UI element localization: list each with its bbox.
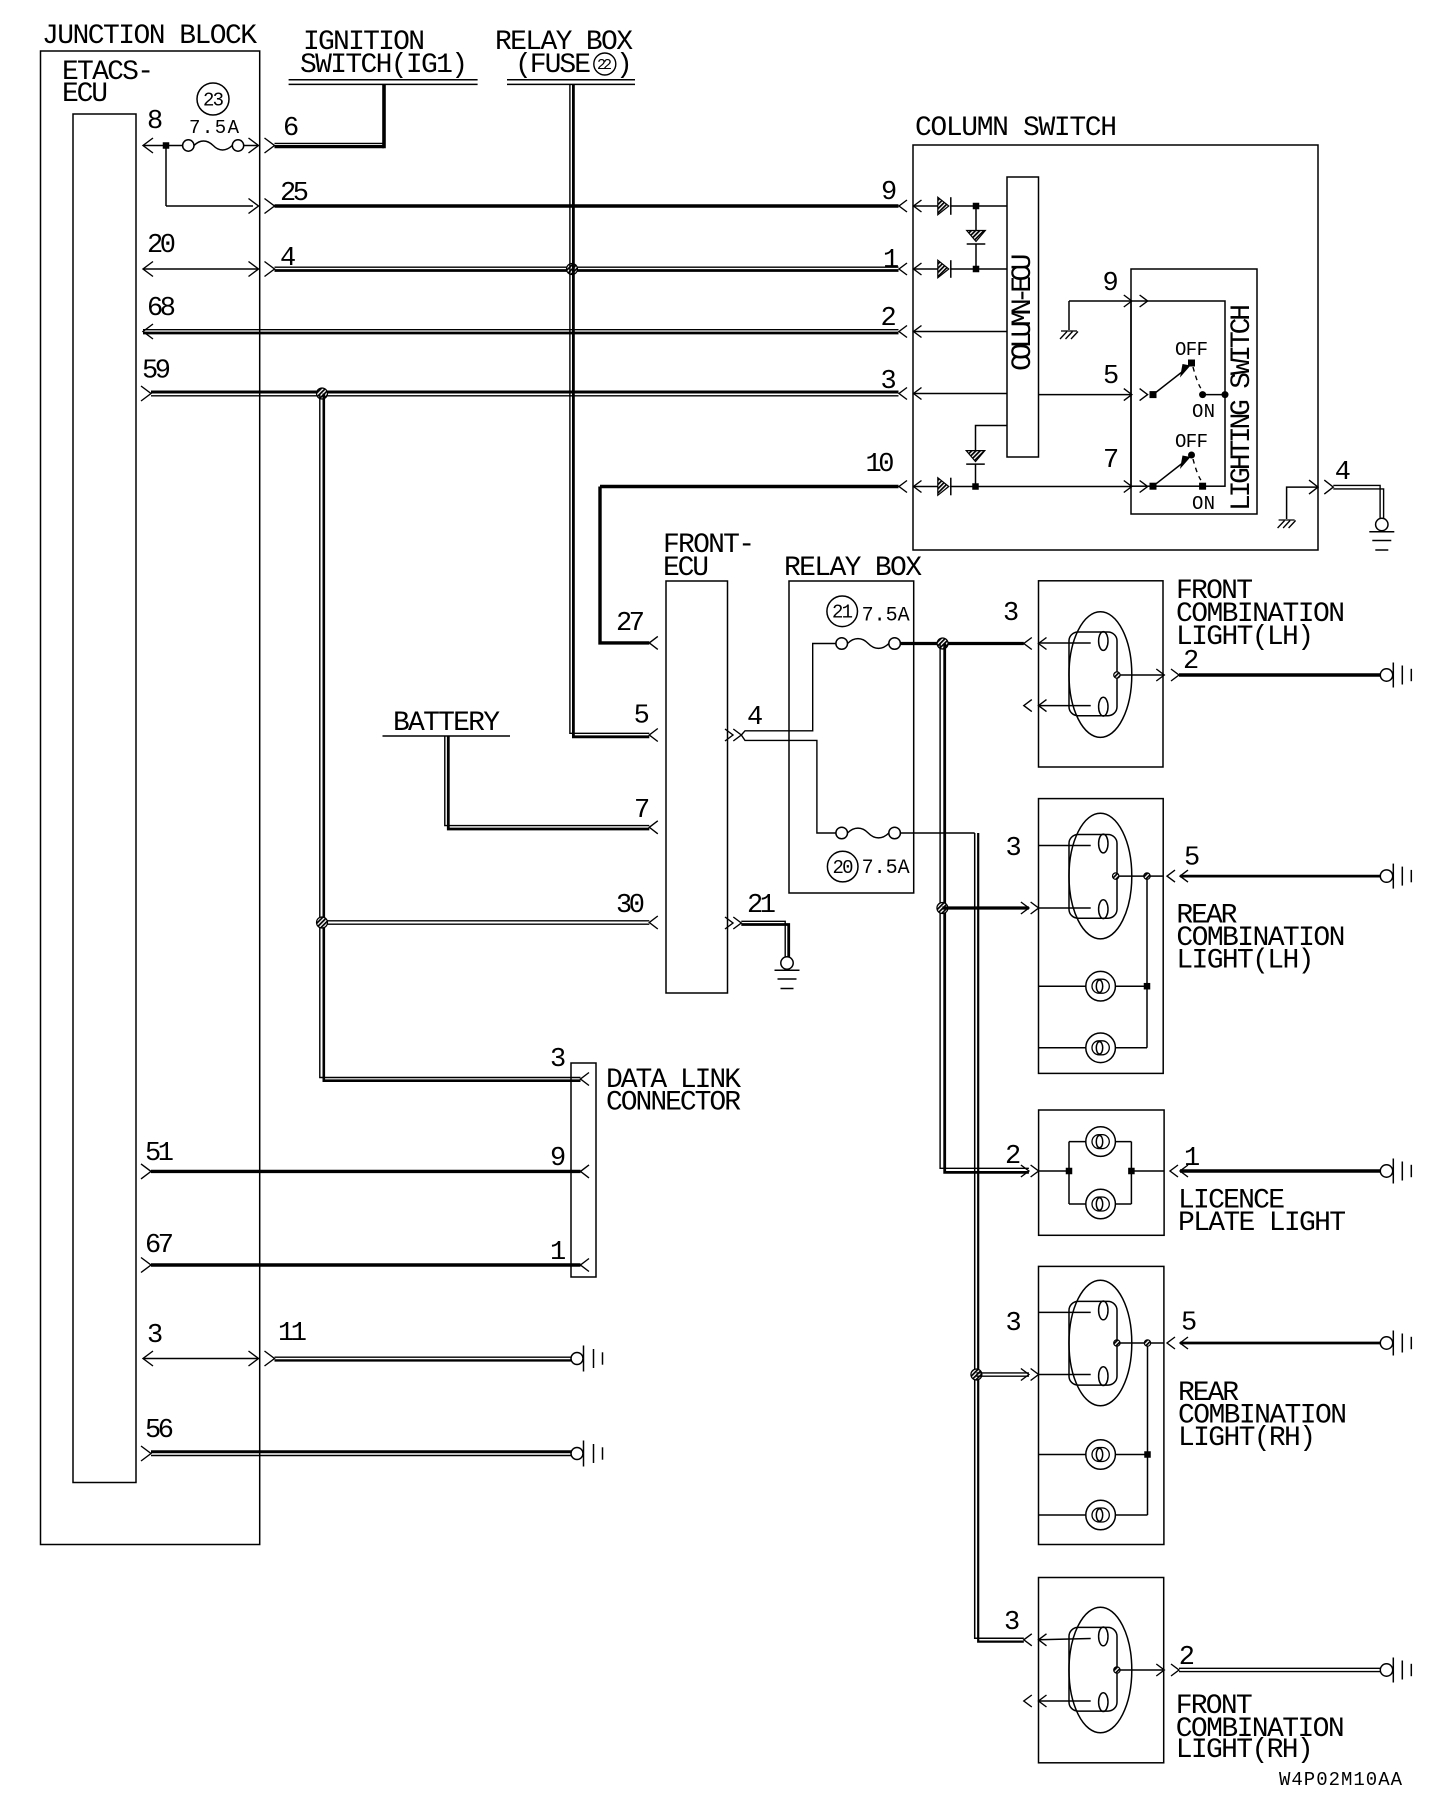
svg-text:4: 4 <box>280 244 296 274</box>
svg-text:3: 3 <box>147 1321 163 1351</box>
svg-text:3: 3 <box>550 1045 566 1075</box>
svg-text:7: 7 <box>1103 446 1119 476</box>
svg-text:LIGHT(LH): LIGHT(LH) <box>1176 622 1314 653</box>
svg-text:BATTERY: BATTERY <box>393 708 500 739</box>
svg-text:2: 2 <box>1179 1643 1195 1673</box>
svg-text:LIGHT(RH): LIGHT(RH) <box>1178 1423 1316 1454</box>
svg-text:3: 3 <box>1006 834 1022 864</box>
svg-text:1: 1 <box>883 246 899 276</box>
svg-text:6: 6 <box>283 114 299 144</box>
svg-text:23: 23 <box>203 90 224 112</box>
svg-text:3: 3 <box>881 367 897 397</box>
svg-text:W4P02M10AA: W4P02M10AA <box>1279 1769 1403 1791</box>
svg-text:8: 8 <box>147 107 163 137</box>
svg-text:3: 3 <box>1006 1309 1022 1339</box>
svg-text:COLUMN SWITCH: COLUMN SWITCH <box>915 113 1117 144</box>
svg-text:1: 1 <box>550 1238 566 1268</box>
svg-text:22: 22 <box>597 57 612 74</box>
svg-text:OFF: OFF <box>1175 431 1208 453</box>
svg-text:JUNCTION BLOCK: JUNCTION BLOCK <box>42 21 257 52</box>
svg-text:11: 11 <box>278 1319 307 1349</box>
svg-text:5: 5 <box>1184 844 1200 874</box>
svg-text:ON: ON <box>1192 401 1215 423</box>
svg-text:5: 5 <box>1181 1309 1197 1339</box>
svg-text:21: 21 <box>747 891 776 921</box>
svg-text:7.5A: 7.5A <box>862 857 910 880</box>
svg-text:56: 56 <box>145 1416 174 1446</box>
svg-text:OFF: OFF <box>1175 339 1208 361</box>
svg-text:9: 9 <box>881 178 897 208</box>
svg-text:5: 5 <box>634 702 650 732</box>
svg-text:27: 27 <box>616 609 645 639</box>
svg-text:3: 3 <box>1003 599 1019 629</box>
svg-text:ECU: ECU <box>62 79 108 110</box>
svg-text:7: 7 <box>634 796 650 826</box>
svg-text:LIGHT(RH): LIGHT(RH) <box>1176 1735 1314 1766</box>
svg-text:2: 2 <box>1005 1142 1021 1172</box>
svg-text:25: 25 <box>280 179 309 209</box>
svg-text:7.5A: 7.5A <box>862 605 910 628</box>
svg-text:): ) <box>616 50 633 81</box>
svg-text:4: 4 <box>747 703 763 733</box>
svg-text:4: 4 <box>1335 458 1351 488</box>
svg-text:7.5A: 7.5A <box>189 117 240 139</box>
svg-text:PLATE LIGHT: PLATE LIGHT <box>1178 1208 1346 1239</box>
svg-text:LIGHT(LH): LIGHT(LH) <box>1176 946 1314 977</box>
svg-text:3: 3 <box>1004 1608 1020 1638</box>
svg-text:67: 67 <box>145 1231 174 1261</box>
svg-text:20: 20 <box>147 231 176 261</box>
svg-text:51: 51 <box>145 1139 174 1169</box>
svg-text:CONNECTOR: CONNECTOR <box>606 1088 741 1119</box>
svg-text:SWITCH(IG1): SWITCH(IG1) <box>300 50 468 81</box>
svg-text:10: 10 <box>866 450 895 480</box>
svg-text:(FUSE: (FUSE <box>515 50 591 81</box>
svg-text:1: 1 <box>1184 1144 1200 1174</box>
svg-text:2: 2 <box>881 304 897 334</box>
svg-text:LIGHTING SWITCH: LIGHTING SWITCH <box>1227 304 1258 511</box>
svg-text:68: 68 <box>147 294 176 324</box>
svg-text:30: 30 <box>616 891 645 921</box>
svg-text:ECU: ECU <box>663 553 709 584</box>
svg-text:59: 59 <box>142 357 171 387</box>
svg-text:9: 9 <box>550 1144 566 1174</box>
svg-text:21: 21 <box>832 602 853 624</box>
svg-text:COLUMN-ECU: COLUMN-ECU <box>1008 254 1039 372</box>
svg-text:ON: ON <box>1192 493 1215 515</box>
svg-text:9: 9 <box>1103 269 1119 299</box>
svg-text:5: 5 <box>1103 362 1119 392</box>
svg-text:20: 20 <box>833 857 854 879</box>
svg-text:RELAY BOX: RELAY BOX <box>784 553 922 584</box>
